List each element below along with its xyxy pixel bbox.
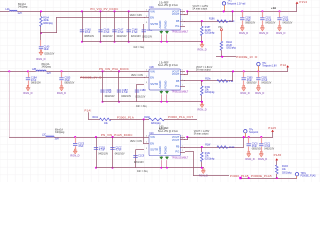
svg-text:0201/pkg: 0201/pkg [205,32,215,34]
svg-text:0402/10V: 0402/10V [265,23,275,25]
svg-text:RGN_D: RGN_D [198,107,207,111]
svg-text:80m/1A: 80m/1A [18,3,26,6]
svg-text:5A+1.25V @ 2.5uA: 5A+1.25V @ 2.5uA [158,4,178,7]
svg-text:RGN_D: RGN_D [36,57,45,61]
svg-text:VEN = 0.9V: VEN = 0.9V [130,141,143,143]
svg-text:0nF = 3nq: 0nF = 3nq [134,47,145,49]
svg-text:P3000E_P1A5: P3000E_P1A5 [301,175,317,178]
svg-text:0805/10V: 0805/10V [245,23,255,25]
svg-text:5A+1.25V @ 2.5uA: 5A+1.25V @ 2.5uA [158,64,178,67]
svg-text:RGN_D: RGN_D [255,91,264,95]
svg-text:C1C9: C1C9 [138,155,145,157]
svg-text:P1A!: P1A! [85,108,92,112]
svg-text:P1A5: P1A5 [268,126,276,130]
svg-text:1.5v REF: 1.5v REF [159,62,169,64]
svg-text:1uH: 1uH [18,13,23,15]
svg-text:0805/10V: 0805/10V [247,83,257,85]
svg-text:P3000E_1V :D: P3000E_1V :D [81,76,102,80]
svg-text:0201/pkg: 0201/pkg [43,23,53,25]
svg-text:P1A5: P1A5 [274,153,282,157]
svg-text:0402/10V: 0402/10V [98,154,108,156]
svg-text:P1V2: P1V2 [300,0,308,4]
svg-text:10.2k: 10.2k [229,21,235,23]
svg-text:4.7uF: 4.7uF [122,92,128,94]
svg-text:AGND: AGND [158,81,162,89]
svg-text:8: 8 [146,148,147,150]
svg-text:PG: PG [175,84,179,88]
svg-text:VIN: VIN [150,135,155,139]
svg-text:0201/10V: 0201/10V [135,97,145,99]
svg-text:AGND: AGND [158,146,162,154]
svg-text:U1A: U1A [149,6,154,9]
svg-text:10uF: 10uF [44,49,50,51]
svg-text:VOUT: VOUT [172,12,180,16]
svg-text:VOUT: VOUT [172,72,180,76]
svg-text:0201/pkg: 0201/pkg [205,92,215,94]
svg-text:4: 4 [182,12,183,14]
svg-text:PN_VIN_P1A5_DCDC: PN_VIN_P1A5_DCDC [101,133,133,137]
svg-text:U1B: U1B [149,67,154,69]
svg-text:340Qavg: 340Qavg [55,132,65,134]
svg-text:AGND: AGND [158,21,162,29]
svg-text:R192: R192 [144,117,150,119]
svg-text:Testpoint 1.2V rail: Testpoint 1.2V rail [227,3,246,6]
svg-text:0201/pkg: 0201/pkg [226,47,236,49]
svg-text:0402/10V: 0402/10V [105,96,115,98]
svg-text:0402/10V: 0402/10V [117,36,127,38]
svg-text:0201/pkg: 0201/pkg [282,173,292,175]
svg-text:340Qavg: 340Qavg [18,7,28,9]
svg-text:0402/10V: 0402/10V [115,154,125,156]
svg-text:3: 3 [146,70,147,72]
svg-text:PG: PG [175,24,179,28]
svg-text:PGND: PGND [164,146,168,154]
svg-text:TP2x: TP2x [301,173,307,175]
svg-text:RGN_D: RGN_D [23,91,32,95]
svg-text:L2B: L2B [32,69,37,71]
svg-text:80m/1A: 80m/1A [42,63,50,66]
svg-text:1uH: 1uH [47,73,52,75]
svg-text:5A max output: 5A max output [196,69,211,72]
svg-text:0805/10V: 0805/10V [252,149,262,151]
svg-text:TPS62130ABLT: TPS62130ABLT [172,156,189,159]
svg-text:0402/10V: 0402/10V [121,96,131,98]
svg-text:Testpoint: Testpoint [249,131,259,134]
svg-text:47uF: 47uF [78,146,84,148]
svg-text:EN: EN [150,76,154,80]
svg-text:80m/1A: 80m/1A [55,129,63,132]
svg-text:TPS62130ABLT: TPS62130ABLT [172,91,189,94]
svg-text:0201/10V: 0201/10V [134,162,144,164]
svg-text:0402/10V: 0402/10V [103,36,113,38]
svg-text:P3000_P1A: P3000_P1A [117,115,134,119]
svg-text:VOUT: VOUT [172,138,180,142]
svg-text:U1C: U1C [149,133,154,135]
svg-text:3: 3 [146,135,147,137]
svg-text:4.7uF: 4.7uF [132,32,138,34]
svg-text:0nF = 3nq: 0nF = 3nq [136,106,147,108]
svg-text:VIN: VIN [150,9,155,13]
svg-text:FB: FB [176,145,180,149]
svg-text:4.7uF: 4.7uF [104,32,110,34]
svg-text:0805/10V: 0805/10V [31,83,41,85]
svg-text:5A max output: 5A max output [194,133,209,136]
svg-text:RGN_D: RGN_D [259,31,268,35]
svg-text:R19x: R19x [205,78,211,80]
svg-text:8: 8 [146,82,147,84]
svg-text:3: 3 [146,10,147,12]
svg-text:0201/10V: 0201/10V [44,53,54,55]
svg-text:FB: FB [176,19,180,23]
svg-text:0nF = 3nq: 0nF = 3nq [137,171,148,173]
svg-text:RGN_D: RGN_D [70,153,79,157]
svg-text:50-1x: 50-1x [159,129,166,131]
svg-text:8: 8 [146,22,147,24]
svg-text:PN_VIN_PVA_DCDC: PN_VIN_PVA_DCDC [99,67,129,71]
svg-text:SS/TR: SS/TR [150,148,158,152]
svg-text:RGN_D: RGN_D [246,157,255,161]
svg-text:4.7uF: 4.7uF [99,150,105,152]
svg-text:340Qavg: 340Qavg [42,67,52,69]
svg-text:4.7uF: 4.7uF [116,150,122,152]
svg-text:0805/10V: 0805/10V [65,83,75,85]
svg-text:L2C: L2C [42,135,47,137]
svg-text:5A max output: 5A max output [193,8,208,11]
svg-text:10.2k: 10.2k [229,147,235,149]
svg-text:0201/10V: 0201/10V [142,36,152,38]
svg-text:0402/10V: 0402/10V [261,83,271,85]
svg-text:RGN_D: RGN_D [258,157,267,161]
svg-text:RGN_D: RGN_D [239,31,248,35]
svg-text:P1A: P1A [280,63,286,67]
svg-text:P3000_P1A_OUT: P3000_P1A_OUT [168,115,193,119]
svg-text:C1B9: C1B9 [140,90,146,92]
svg-text:EN: EN [150,16,154,20]
svg-text:P3000E_1V :D: P3000E_1V :D [236,55,257,59]
svg-text:R1A4: R1A4 [43,17,49,20]
svg-text:TP1: TP1 [227,1,232,3]
svg-text:0201/10V: 0201/10V [131,36,141,38]
svg-text:R1W: R1W [205,145,211,147]
svg-text:FB: FB [176,79,180,83]
svg-text:3.3v REF: 3.3v REF [159,2,169,4]
svg-text:4.7uF: 4.7uF [118,32,124,34]
svg-text:VEN = 3.9V: VEN = 3.9V [130,15,143,17]
svg-text:RGN_D: RGN_D [198,47,207,51]
svg-text:RGN_D: RGN_D [276,31,285,35]
svg-text:VIN: VIN [150,69,155,73]
svg-text:4: 4 [182,72,183,74]
svg-text:47uF: 47uF [85,32,91,34]
svg-text:R1A2: R1A2 [226,41,232,44]
svg-text:PGND: PGND [164,81,168,89]
svg-text:+1A: +1A [271,6,276,10]
svg-text:0402/10V: 0402/10V [283,23,293,25]
svg-text:R1C6: R1C6 [282,166,289,168]
svg-text:0201/pkg: 0201/pkg [205,158,215,160]
svg-text:PGND: PGND [164,21,168,29]
svg-text:0402/10V: 0402/10V [264,149,274,151]
svg-text:1uH: 1uH [55,139,60,141]
svg-text:0201/pkg: 0201/pkg [151,123,161,125]
svg-text:5: 5 [182,135,183,137]
svg-text:4.7uF: 4.7uF [106,92,112,94]
svg-text:P3000E_P1A5: P3000E_P1A5 [251,174,272,178]
svg-text:SS/TR: SS/TR [150,82,158,86]
svg-text:EN: EN [150,141,154,145]
svg-text:L2A: L2A [6,8,11,11]
svg-text:TPS62130ABLT: TPS62130ABLT [172,31,189,34]
svg-text:R191: R191 [93,117,99,119]
svg-text:0805/10V: 0805/10V [84,36,94,38]
svg-text:1: 1 [182,150,183,152]
svg-text:Testpoint 1.8V: Testpoint 1.8V [262,65,277,68]
svg-text:SS/TR: SS/TR [150,22,158,26]
svg-text:RGN_D: RGN_D [57,91,66,95]
svg-text:PG: PG [175,150,179,154]
svg-text:R196: R196 [209,19,215,21]
svg-text:RGN_D: RGN_D [241,91,250,95]
svg-text:VEN = 0.9V: VEN = 0.9V [131,75,144,77]
